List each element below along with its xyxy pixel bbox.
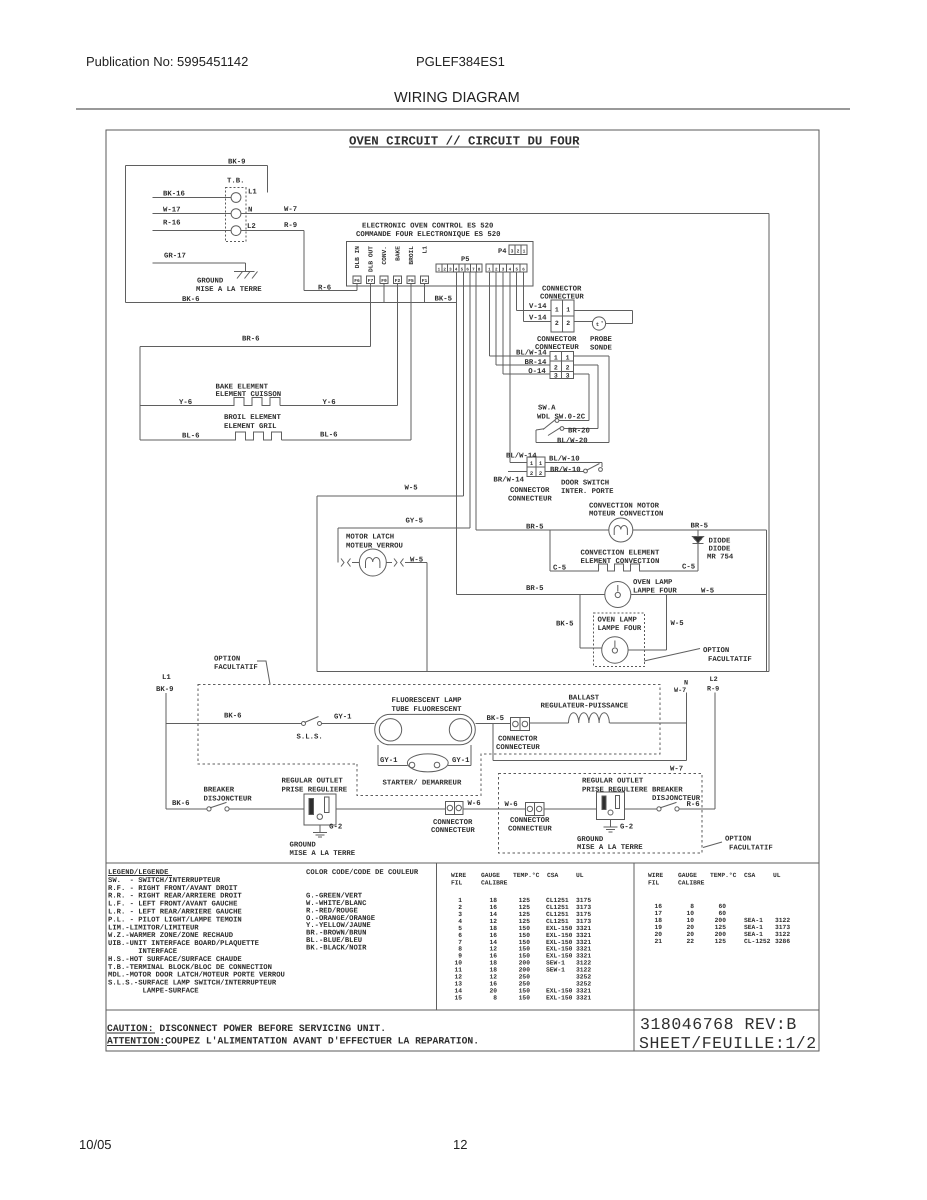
svg-text:BREAKER: BREAKER: [204, 787, 235, 795]
svg-text:60: 60: [718, 910, 726, 917]
svg-text:250: 250: [519, 981, 531, 988]
svg-text:3: 3: [566, 373, 570, 380]
svg-text:GROUND: GROUND: [577, 836, 604, 844]
svg-text:BR-20: BR-20: [568, 428, 590, 436]
svg-text:16: 16: [489, 904, 497, 911]
svg-text:CSA: CSA: [547, 872, 559, 879]
svg-text:MISE A LA TERRE: MISE A LA TERRE: [577, 844, 643, 852]
svg-text:14: 14: [489, 911, 497, 918]
svg-text:GY-5: GY-5: [406, 518, 424, 526]
svg-text:10: 10: [686, 917, 694, 924]
svg-text:BK-6: BK-6: [224, 713, 242, 721]
svg-text:BR-5: BR-5: [526, 585, 544, 593]
svg-text:3321: 3321: [576, 953, 591, 960]
svg-text:16: 16: [489, 953, 497, 960]
svg-text:CALIBRE: CALIBRE: [481, 880, 508, 887]
svg-text:8: 8: [493, 994, 497, 1001]
svg-text:1: 1: [566, 307, 570, 314]
svg-text:SONDE: SONDE: [590, 345, 613, 353]
svg-text:ELEMENT CUISSON: ELEMENT CUISSON: [216, 391, 282, 399]
svg-text:TEMP.°C: TEMP.°C: [513, 872, 540, 879]
svg-text:3321: 3321: [576, 994, 591, 1001]
svg-text:SEA-1: SEA-1: [744, 924, 763, 931]
svg-text:V-14: V-14: [529, 303, 547, 311]
svg-text:12: 12: [489, 946, 497, 953]
svg-text:CONNECTOR: CONNECTOR: [510, 817, 550, 825]
svg-text:3252: 3252: [576, 974, 591, 981]
svg-text:EXL-150: EXL-150: [546, 932, 573, 939]
svg-text:1: 1: [555, 307, 559, 314]
svg-text:BL/W-14: BL/W-14: [506, 452, 537, 461]
svg-text:REGULAR OUTLET: REGULAR OUTLET: [582, 778, 644, 786]
svg-text:H.S.-HOT SURFACE/SURFACE CHAUD: H.S.-HOT SURFACE/SURFACE CHAUDE: [108, 955, 242, 964]
svg-text:11: 11: [454, 967, 462, 974]
svg-text:C-5: C-5: [553, 565, 566, 573]
svg-text:CONVECTION MOTOR: CONVECTION MOTOR: [589, 503, 660, 511]
svg-text:PGLEF384ES1: PGLEF384ES1: [416, 54, 505, 69]
svg-text:3321: 3321: [576, 939, 591, 946]
svg-text:2: 2: [566, 365, 570, 372]
svg-text:REGULATEUR-PUISSANCE: REGULATEUR-PUISSANCE: [541, 703, 629, 711]
svg-text:BR-5: BR-5: [691, 523, 709, 531]
svg-text:COLOR CODE/CODE DE COULEUR: COLOR CODE/CODE DE COULEUR: [306, 868, 419, 877]
svg-text:2: 2: [555, 320, 559, 327]
svg-text:BL/W-14: BL/W-14: [516, 349, 547, 358]
svg-text:3321: 3321: [576, 987, 591, 994]
svg-text:BAKE: BAKE: [395, 246, 402, 261]
svg-text:150: 150: [519, 994, 531, 1001]
svg-text:3252: 3252: [576, 981, 591, 988]
svg-text:CONNECTOR: CONNECTOR: [537, 336, 577, 344]
svg-text:BK-5: BK-5: [435, 296, 453, 304]
svg-text:1: 1: [458, 897, 462, 904]
svg-text:318046768 REV:B: 318046768 REV:B: [640, 1015, 797, 1034]
svg-text:3321: 3321: [576, 932, 591, 939]
svg-text:R.F. - RIGHT FRONT/AVANT DROIT: R.F. - RIGHT FRONT/AVANT DROIT: [108, 884, 238, 893]
svg-text:200: 200: [519, 967, 531, 974]
svg-text:6: 6: [458, 932, 462, 939]
svg-text:3122: 3122: [775, 931, 790, 938]
svg-text:CONVECTION ELEMENT: CONVECTION ELEMENT: [581, 550, 660, 558]
svg-text:MISE A LA TERRE: MISE A LA TERRE: [290, 850, 356, 858]
svg-text:150: 150: [519, 987, 531, 994]
svg-text:GY-1: GY-1: [452, 757, 470, 765]
svg-text:200: 200: [715, 931, 727, 938]
svg-text:DOOR SWITCH: DOOR SWITCH: [561, 480, 609, 488]
svg-text:BROIL ELEMENT: BROIL ELEMENT: [224, 414, 282, 422]
svg-text:SEA-1: SEA-1: [744, 931, 763, 938]
svg-text:2: 2: [530, 470, 533, 477]
svg-text:2: 2: [554, 365, 558, 372]
svg-text:FACULTATIF: FACULTATIF: [708, 656, 752, 664]
svg-text:L.F. - LEFT FRONT/AVANT GAUCHE: L.F. - LEFT FRONT/AVANT GAUCHE: [108, 900, 238, 909]
svg-text:20: 20: [489, 987, 497, 994]
svg-text:BL/W-10: BL/W-10: [549, 455, 580, 464]
svg-text:PROBE: PROBE: [590, 336, 613, 344]
svg-text:L.R. - LEFT REAR/ARRIERE GAUCH: L.R. - LEFT REAR/ARRIERE GAUCHE: [108, 908, 242, 917]
svg-text:BR/W-14: BR/W-14: [493, 476, 524, 485]
svg-text:125: 125: [519, 904, 531, 911]
svg-text:MOTOR LATCH: MOTOR LATCH: [346, 534, 394, 542]
svg-text:MR 754: MR 754: [707, 554, 734, 562]
svg-text:16: 16: [489, 981, 497, 988]
svg-text:FIL: FIL: [451, 880, 463, 887]
svg-text:125: 125: [519, 897, 531, 904]
svg-text:2: 2: [517, 249, 520, 255]
svg-text:1: 1: [566, 354, 570, 361]
svg-text:BR-6: BR-6: [242, 336, 260, 344]
svg-text:BREAKER: BREAKER: [652, 787, 683, 795]
svg-text:L1: L1: [248, 189, 257, 197]
svg-text:22: 22: [686, 938, 694, 945]
svg-text:W-5: W-5: [405, 485, 418, 493]
svg-text:FLUORESCENT LAMP: FLUORESCENT LAMP: [392, 697, 463, 705]
svg-text:t: t: [596, 321, 599, 328]
svg-text:18: 18: [489, 967, 497, 974]
svg-text:SEW-1: SEW-1: [546, 960, 565, 967]
svg-text:WIRING DIAGRAM: WIRING DIAGRAM: [394, 90, 520, 106]
svg-text:CONNECTOR: CONNECTOR: [498, 736, 538, 744]
svg-text:W-6: W-6: [468, 800, 481, 808]
svg-text:OPTION: OPTION: [725, 836, 751, 844]
svg-text:CONNECTEUR: CONNECTEUR: [508, 495, 552, 503]
svg-text:UL: UL: [773, 872, 781, 879]
svg-text:3175: 3175: [576, 897, 591, 904]
svg-text:WIRE: WIRE: [648, 872, 663, 879]
svg-text:BK-5: BK-5: [487, 715, 505, 723]
svg-text:EXL-150: EXL-150: [546, 987, 573, 994]
svg-text:F2: F2: [395, 278, 401, 284]
svg-text:F5: F5: [408, 278, 414, 284]
svg-text:MISE A LA TERRE: MISE A LA TERRE: [196, 286, 262, 294]
svg-text:GROUND: GROUND: [290, 842, 317, 850]
svg-text:3122: 3122: [576, 967, 591, 974]
svg-text:7: 7: [458, 939, 462, 946]
svg-text:3173: 3173: [775, 924, 790, 931]
svg-text:150: 150: [519, 946, 531, 953]
svg-text:14: 14: [454, 987, 462, 994]
svg-text:W-7: W-7: [670, 766, 683, 774]
svg-text:R-16: R-16: [163, 220, 181, 228]
svg-text:LAMPE FOUR: LAMPE FOUR: [598, 625, 642, 633]
svg-text:L2: L2: [247, 223, 256, 231]
svg-text:W-5: W-5: [410, 557, 423, 565]
svg-text:V-14: V-14: [529, 315, 547, 323]
svg-text:REGULAR OUTLET: REGULAR OUTLET: [282, 778, 344, 786]
svg-text:UIB.-UNIT INTERFACE BOARD/PLAQ: UIB.-UNIT INTERFACE BOARD/PLAQUETTE: [108, 939, 260, 948]
svg-text:150: 150: [519, 953, 531, 960]
svg-text:W-17: W-17: [163, 207, 181, 215]
svg-text:F1: F1: [422, 278, 428, 284]
svg-text:8: 8: [458, 946, 462, 953]
svg-text:GY-1: GY-1: [334, 714, 352, 722]
svg-text:OVEN LAMP: OVEN LAMP: [633, 579, 673, 587]
svg-text:125: 125: [715, 924, 727, 931]
svg-text:LAMPE FOUR: LAMPE FOUR: [633, 588, 677, 596]
svg-text:150: 150: [519, 925, 531, 932]
svg-text:INTER. PORTE: INTER. PORTE: [561, 488, 614, 496]
svg-text:W-5: W-5: [671, 620, 684, 628]
svg-text:12: 12: [489, 974, 497, 981]
svg-text:21: 21: [654, 938, 662, 945]
svg-text:3175: 3175: [576, 911, 591, 918]
svg-text:ATTENTION:COUPEZ L'ALIMENTATIO: ATTENTION:COUPEZ L'ALIMENTATION AVANT D'…: [107, 1036, 479, 1047]
svg-text:2: 2: [539, 470, 542, 477]
svg-text:150: 150: [519, 932, 531, 939]
svg-text:3: 3: [554, 373, 558, 380]
svg-text:BK-9: BK-9: [228, 159, 246, 167]
svg-text:20: 20: [654, 931, 662, 938]
svg-text:GAUGE: GAUGE: [678, 872, 697, 879]
svg-text:SW. - SWITCH/INTERRUPTEUR: SW. - SWITCH/INTERRUPTEUR: [108, 876, 221, 885]
svg-text:R-9: R-9: [707, 686, 719, 694]
svg-text:DISJONCTEUR: DISJONCTEUR: [204, 796, 253, 804]
svg-text:10: 10: [454, 960, 462, 967]
svg-text:INTERFACE: INTERFACE: [108, 948, 178, 956]
svg-text:18: 18: [489, 960, 497, 967]
svg-text:CL-1252: CL-1252: [744, 938, 771, 945]
svg-text:T.B.-TERMINAL BLOCK/BLOC DE CO: T.B.-TERMINAL BLOCK/BLOC DE CONNECTION: [108, 963, 272, 972]
svg-text:O-14: O-14: [528, 368, 546, 376]
svg-text:S.L.S.: S.L.S.: [297, 734, 323, 742]
svg-text:CL1251: CL1251: [546, 918, 569, 925]
svg-text:FIL: FIL: [648, 880, 660, 887]
svg-text:STARTER/ DEMARREUR: STARTER/ DEMARREUR: [383, 779, 462, 788]
svg-text:R.R. - RIGHT REAR/ARRIERE DROI: R.R. - RIGHT REAR/ARRIERE DROIT: [108, 892, 242, 901]
svg-text:15: 15: [454, 994, 462, 1001]
svg-text:TEMP.°C: TEMP.°C: [710, 872, 737, 879]
svg-text:R-9: R-9: [284, 222, 297, 230]
svg-text:F7: F7: [368, 278, 374, 284]
svg-text:125: 125: [715, 938, 727, 945]
svg-text:GR-17: GR-17: [164, 253, 186, 261]
svg-text:R-6: R-6: [687, 801, 700, 809]
svg-text:GY-1: GY-1: [380, 757, 398, 765]
svg-text:ELEMENT GRIL: ELEMENT GRIL: [224, 423, 277, 431]
svg-text:L2: L2: [710, 676, 718, 684]
svg-text:BR/W-10: BR/W-10: [550, 466, 581, 475]
svg-text:PRISE REGULIERE: PRISE REGULIERE: [282, 787, 348, 795]
svg-text:S.L.S.-SURFACE LAMP SWITCH/INT: S.L.S.-SURFACE LAMP SWITCH/INTERRUPTEUR: [108, 979, 277, 988]
svg-text:60: 60: [718, 903, 726, 910]
svg-text:P.L. - PILOT LIGHT/LAMPE TEMOI: P.L. - PILOT LIGHT/LAMPE TEMOIN: [108, 915, 242, 924]
svg-text:BK-6: BK-6: [172, 800, 190, 808]
svg-text:EXL-150: EXL-150: [546, 939, 573, 946]
svg-text:EXL-150: EXL-150: [546, 925, 573, 932]
svg-text:200: 200: [519, 960, 531, 967]
svg-text:WIRE: WIRE: [451, 872, 466, 879]
svg-text:3286: 3286: [775, 938, 790, 945]
svg-text:1: 1: [523, 249, 526, 255]
svg-text:150: 150: [519, 939, 531, 946]
svg-text:18: 18: [489, 925, 497, 932]
svg-text:10/05: 10/05: [79, 1137, 112, 1152]
svg-text:8: 8: [690, 903, 694, 910]
svg-text:DLB IN: DLB IN: [354, 246, 361, 269]
svg-text:T.B.: T.B.: [227, 178, 245, 186]
svg-text:FACULTATIF: FACULTATIF: [214, 664, 258, 672]
svg-text:BR-14: BR-14: [525, 359, 548, 367]
svg-text:CL1251: CL1251: [546, 904, 569, 911]
svg-text:19: 19: [654, 924, 662, 931]
svg-text:BK-6: BK-6: [182, 296, 200, 304]
svg-text:250: 250: [519, 974, 531, 981]
svg-text:18: 18: [654, 917, 662, 924]
svg-text:3173: 3173: [576, 904, 591, 911]
svg-text:5: 5: [458, 925, 462, 932]
svg-text:DIODE: DIODE: [709, 546, 732, 554]
svg-text:BALLAST: BALLAST: [569, 695, 600, 703]
svg-text:10: 10: [686, 910, 694, 917]
svg-text:16: 16: [654, 903, 662, 910]
svg-text:16: 16: [489, 932, 497, 939]
svg-text:12: 12: [454, 974, 462, 981]
svg-text:BL/W-20: BL/W-20: [557, 437, 588, 446]
svg-text:GROUND: GROUND: [197, 278, 224, 286]
svg-text:L1: L1: [422, 246, 429, 254]
svg-text:OVEN CIRCUIT // CIRCUIT DU FOU: OVEN CIRCUIT // CIRCUIT DU FOUR: [349, 135, 580, 149]
svg-text:BK.-BLACK/NOIR: BK.-BLACK/NOIR: [306, 943, 367, 952]
svg-text:DLB OUT: DLB OUT: [368, 246, 375, 272]
svg-text:9: 9: [458, 953, 462, 960]
svg-text:G-2: G-2: [620, 824, 633, 832]
svg-text:CL1251: CL1251: [546, 897, 569, 904]
svg-text:ELEMENT CONVECTION: ELEMENT CONVECTION: [581, 558, 660, 566]
svg-text:3321: 3321: [576, 925, 591, 932]
svg-text:BROIL: BROIL: [408, 246, 415, 265]
svg-text:SEW-1: SEW-1: [546, 967, 565, 974]
svg-text:3: 3: [458, 911, 462, 918]
svg-text:LIM.-LIMITOR/LIMITEUR: LIM.-LIMITOR/LIMITEUR: [108, 923, 199, 932]
svg-text:CONNECTOR: CONNECTOR: [433, 819, 473, 827]
svg-text:17: 17: [654, 910, 662, 917]
svg-text:C-5: C-5: [682, 564, 695, 572]
svg-text:3173: 3173: [576, 918, 591, 925]
svg-text:ELECTRONIC OVEN CONTROL ES 520: ELECTRONIC OVEN CONTROL ES 520: [362, 223, 493, 231]
svg-text:W-7: W-7: [674, 687, 686, 695]
svg-text:2: 2: [566, 320, 570, 327]
svg-text:CONV.: CONV.: [381, 246, 388, 265]
svg-text:12: 12: [489, 918, 497, 925]
svg-text:125: 125: [519, 918, 531, 925]
svg-text:COMMANDE FOUR ELECTRONIQUE ES: COMMANDE FOUR ELECTRONIQUE ES 520: [356, 231, 501, 239]
svg-text:SW.A: SW.A: [538, 405, 556, 413]
svg-text:F9: F9: [381, 278, 387, 284]
svg-text:CL1251: CL1251: [546, 911, 569, 918]
svg-text:P5: P5: [461, 256, 469, 264]
svg-text:125: 125: [519, 911, 531, 918]
svg-text:Publication No: 5995451142: Publication No: 5995451142: [86, 54, 248, 69]
svg-text:BL-6: BL-6: [320, 432, 338, 440]
svg-text:P4: P4: [498, 248, 506, 256]
svg-text:20: 20: [686, 931, 694, 938]
svg-text:°: °: [601, 321, 604, 327]
svg-text:W-6: W-6: [505, 801, 518, 809]
svg-text:OVEN LAMP: OVEN LAMP: [598, 617, 638, 625]
svg-text:20: 20: [686, 924, 694, 931]
svg-text:FACULTATIF: FACULTATIF: [729, 845, 773, 853]
svg-text:3321: 3321: [576, 946, 591, 953]
svg-text:4: 4: [458, 918, 462, 925]
svg-text:CONNECTOR: CONNECTOR: [542, 286, 582, 294]
svg-text:MDL.-MOTOR DOOR LATCH/MOTEUR P: MDL.-MOTOR DOOR LATCH/MOTEUR PORTE VERRO…: [108, 971, 285, 980]
svg-text:CALIBRE: CALIBRE: [678, 880, 705, 887]
svg-text:2: 2: [458, 904, 462, 911]
svg-text:CSA: CSA: [744, 872, 756, 879]
svg-text:13: 13: [454, 981, 462, 988]
svg-text:BR-5: BR-5: [526, 524, 544, 532]
svg-text:3: 3: [511, 249, 514, 255]
svg-text:CONNECTEUR: CONNECTEUR: [431, 827, 475, 835]
svg-text:CAUTION: DISCONNECT POWER BEFO: CAUTION: DISCONNECT POWER BEFORE SERVICI…: [107, 1023, 386, 1034]
svg-text:BK-16: BK-16: [163, 191, 185, 199]
svg-text:LAMPE-SURFACE: LAMPE-SURFACE: [108, 988, 199, 996]
svg-text:TUBE FLUORESCENT: TUBE FLUORESCENT: [392, 706, 463, 714]
svg-text:3122: 3122: [775, 917, 790, 924]
svg-text:Y-6: Y-6: [179, 399, 192, 407]
svg-text:W-5: W-5: [701, 588, 714, 596]
svg-text:UL: UL: [576, 872, 584, 879]
svg-text:EXL-150: EXL-150: [546, 946, 573, 953]
svg-text:3122: 3122: [576, 960, 591, 967]
svg-text:W-7: W-7: [284, 206, 297, 214]
svg-text:CONNECTEUR: CONNECTEUR: [496, 744, 540, 752]
svg-text:14: 14: [489, 939, 497, 946]
svg-text:MOTEUR CONVECTION: MOTEUR CONVECTION: [589, 511, 663, 519]
svg-text:L1: L1: [162, 674, 171, 682]
svg-text:R-6: R-6: [318, 285, 331, 293]
svg-text:200: 200: [715, 917, 727, 924]
svg-text:BK-5: BK-5: [556, 621, 574, 629]
svg-text:F6: F6: [354, 278, 360, 284]
svg-text:OPTION: OPTION: [214, 656, 240, 664]
svg-text:18: 18: [489, 897, 497, 904]
svg-text:GAUGE: GAUGE: [481, 872, 500, 879]
svg-text:PRISE REGULIERE: PRISE REGULIERE: [582, 787, 648, 795]
svg-text:BL-6: BL-6: [182, 433, 200, 441]
svg-text:SEA-1: SEA-1: [744, 917, 763, 924]
svg-text:EXL-150: EXL-150: [546, 953, 573, 960]
svg-text:SHEET/FEUILLE:1/2: SHEET/FEUILLE:1/2: [639, 1034, 817, 1053]
svg-text:CONNECTEUR: CONNECTEUR: [508, 825, 552, 833]
svg-text:Y-6: Y-6: [323, 399, 336, 407]
svg-text:DIODE: DIODE: [709, 538, 732, 546]
svg-text:CONNECTOR: CONNECTOR: [510, 487, 550, 495]
svg-text:12: 12: [453, 1137, 467, 1152]
svg-text:OPTION: OPTION: [703, 647, 729, 655]
svg-text:BK-9: BK-9: [156, 686, 174, 694]
svg-text:EXL-150: EXL-150: [546, 994, 573, 1001]
svg-text:W.Z.-WARMER ZONE/ZONE RECHAUD: W.Z.-WARMER ZONE/ZONE RECHAUD: [108, 931, 234, 940]
svg-text:1: 1: [554, 354, 558, 361]
svg-text:G-2: G-2: [329, 824, 342, 832]
